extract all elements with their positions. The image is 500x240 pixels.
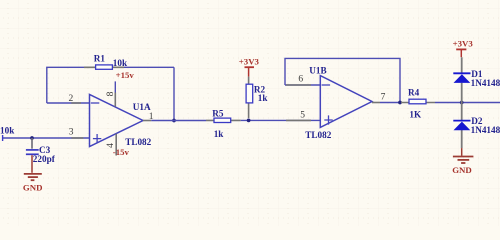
diode D1 pins (gray) [461, 57, 463, 102]
pin number 3 [69, 128, 74, 138]
resistor R2 body (vertical) [246, 84, 253, 103]
svg-text:-15v: -15v [113, 147, 130, 157]
resistor R4 body [409, 99, 426, 104]
svg-text:+3V3: +3V3 [453, 38, 474, 48]
pin 5 gray pin segment of U1B [286, 119, 311, 121]
pin 8 power pin of U1A [114, 81, 116, 106]
svg-text:R5: R5 [212, 108, 224, 118]
resistor R4 gray stubs [401, 102, 435, 104]
op-amp U1B triangle [320, 76, 372, 128]
pin number 6 [298, 74, 303, 84]
svg-text:+3V3: +3V3 [239, 56, 260, 66]
value 1N4148 (D2) [471, 125, 500, 135]
svg-text:TL082: TL082 [125, 137, 151, 147]
designator R2 [254, 85, 266, 95]
U1B non-inverting plus mark [324, 115, 332, 124]
designator D1 [471, 69, 483, 79]
wire U1A output to R5 [151, 120, 206, 122]
node junction U1B output feedback [398, 101, 402, 105]
wire pin 2 horizontal [47, 102, 89, 104]
pin number 2 [69, 94, 74, 104]
svg-text:7: 7 [381, 93, 386, 103]
value 220pf [33, 154, 56, 164]
pin 1 output gray segment of U1A [143, 120, 151, 122]
svg-text:8: 8 [106, 91, 116, 96]
value 1k (R2) [258, 93, 269, 103]
U1A inverting input minus mark [91, 102, 100, 104]
pin number 1 [149, 112, 154, 122]
wire U1B feedback loop (left vertical + top + right vertical) [285, 58, 400, 102]
wire feedback right vertical to output node [173, 67, 175, 120]
svg-text:U1A: U1A [133, 102, 151, 112]
value 10k (R1) [113, 58, 128, 68]
wire pin 6 horizontal [285, 84, 320, 86]
svg-text:GND: GND [452, 165, 472, 175]
resistor R1 gray stubs [84, 66, 124, 68]
wire feedback left vertical [47, 67, 174, 103]
designator R5 [212, 108, 224, 118]
designator U1A [133, 102, 151, 112]
svg-text:10k: 10k [113, 58, 128, 68]
U1A non-inverting plus mark [93, 134, 101, 143]
node junction at input and C3 [30, 136, 34, 140]
pin 2 gray pin segment [71, 102, 81, 104]
diode D2 pins (gray) [461, 103, 463, 149]
capacitor C3 [26, 138, 39, 173]
node junction at U1A output [172, 119, 176, 123]
part value TL082 (U1B) [305, 130, 331, 140]
resistor R5 body [214, 118, 231, 122]
value 1K (R4) [409, 109, 422, 119]
svg-text:1k: 1k [214, 129, 225, 139]
resistor R1 body [96, 65, 113, 69]
wire input net from left edge to pin 3 of U1A [3, 137, 89, 139]
pin 4 power pin of U1A [115, 134, 117, 156]
node junction diodes D1 D2 [460, 101, 464, 105]
svg-text:+15v: +15v [116, 70, 135, 80]
designator C3 [39, 145, 51, 155]
wire R5 to pin 5 of U1B [241, 119, 320, 121]
svg-text:5: 5 [300, 111, 305, 121]
designator R1 [94, 53, 106, 63]
diode D1 symbol [453, 73, 470, 83]
pin 6 gray pin segment [286, 84, 311, 86]
op-amp U1A triangle [90, 95, 144, 147]
U1B inverting input minus mark [322, 84, 331, 86]
svg-text:6: 6 [298, 74, 303, 84]
svg-text:TL082: TL082 [305, 130, 331, 140]
svg-text:U1B: U1B [309, 65, 326, 75]
power port -15v [113, 147, 130, 157]
ground GND (left, below C3) [23, 174, 43, 193]
part value TL082 (U1A) [125, 137, 151, 147]
svg-text:1k: 1k [258, 93, 269, 103]
svg-text:R1: R1 [94, 53, 106, 63]
node junction R2 bottom [247, 119, 251, 123]
pin number 4 (rotated) [106, 143, 116, 148]
ground GND (below D2) [452, 148, 473, 175]
pin number 8 (rotated) [106, 91, 116, 96]
resistor R2 gray stubs [248, 77, 250, 118]
wire U1B output to R4 [380, 102, 401, 104]
pin 7 output gray segment of U1B [372, 102, 380, 104]
designator U1B [309, 65, 326, 75]
svg-text:R4: R4 [408, 88, 420, 98]
svg-text:10k: 10k [0, 126, 15, 136]
designator D2 [471, 116, 483, 126]
resistor R5 gray stubs [206, 119, 241, 121]
pin number 5 [300, 111, 305, 121]
diode D2 symbol [453, 121, 470, 131]
svg-text:1K: 1K [409, 109, 422, 119]
pin number 7 [381, 93, 386, 103]
svg-text:3: 3 [69, 128, 74, 138]
svg-text:GND: GND [23, 183, 43, 193]
pin 3 gray pin segment of U1A [71, 137, 83, 139]
value 1k (R5) [214, 129, 225, 139]
svg-text:220pf: 220pf [33, 154, 56, 164]
wire R4 to diode node and right edge [435, 102, 500, 104]
power port +15v [116, 70, 135, 80]
designator R4 [408, 88, 420, 98]
value label 10k (left input) [0, 126, 15, 136]
value 1N4148 (D1) [471, 78, 500, 88]
svg-text:1N4148: 1N4148 [471, 125, 500, 135]
svg-text:2: 2 [69, 94, 74, 104]
resistor edge stub (10k) at left border [2, 135, 4, 141]
power port +3V3 (above D1) [453, 38, 474, 57]
power port +3V3 (above R2) [239, 56, 260, 76]
svg-text:1N4148: 1N4148 [471, 78, 500, 88]
